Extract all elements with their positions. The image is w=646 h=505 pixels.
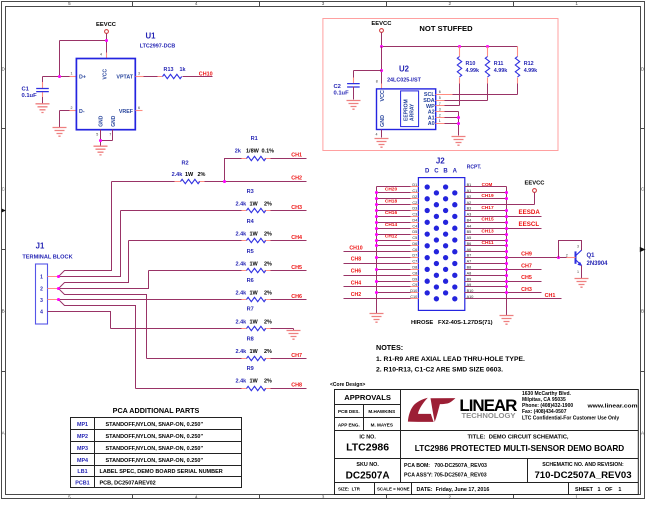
Q1 base pin stub [567, 257, 576, 259]
wire SDA to R11 [445, 100, 488, 102]
svg-text:SHEET 1 OF 1: SHEET 1 OF 1 [575, 487, 621, 493]
junction dots left bus [375, 191, 378, 294]
svg-text:R5: R5 [247, 249, 254, 255]
address block [522, 391, 638, 422]
U1 pin numbers [71, 53, 141, 137]
svg-text:A0: A0 [428, 121, 435, 127]
wires J2 left rows to bus [377, 193, 411, 293]
svg-text:CH7: CH7 [521, 263, 532, 269]
U2 VCC pin stub [381, 84, 383, 89]
svg-text:A8: A8 [467, 271, 472, 275]
U1 SECTION [22, 22, 213, 155]
resistor R11 [485, 47, 489, 101]
Linear Technology logo swoosh [408, 398, 456, 422]
ground at R7 [287, 331, 301, 340]
junction dots right bus [505, 191, 508, 294]
Q1 pin numbers [566, 245, 579, 275]
R2 labels [172, 161, 206, 178]
svg-text:STANDOFF,NYLON, SNAP-ON, 0.250: STANDOFF,NYLON, SNAP-ON, 0.250" [106, 422, 204, 428]
svg-text:2.4k: 2.4k [236, 349, 248, 355]
svg-text:4: 4 [195, 494, 198, 499]
resistor R3 [121, 208, 307, 212]
svg-text:ARRAY: ARRAY [410, 103, 416, 121]
svg-text:MP4: MP4 [77, 458, 88, 464]
svg-text:CH10: CH10 [349, 245, 362, 251]
svg-text:PCB1: PCB1 [75, 480, 89, 486]
junction J1 pin3 [57, 298, 60, 301]
svg-text:STANDOFF,NYLON, SNAP-ON, 0.250: STANDOFF,NYLON, SNAP-ON, 0.250" [106, 446, 204, 452]
right margin arrow marker [640, 248, 644, 252]
svg-text:0.1%: 0.1% [262, 149, 275, 155]
junction U1 gnd pins [99, 139, 102, 142]
wire R7 to ground [293, 329, 295, 331]
junction C2 branch [380, 69, 383, 72]
svg-text:EESCL: EESCL [519, 221, 540, 228]
svg-text:C4: C4 [412, 224, 417, 228]
svg-text:DATE: Friday, June 17, 2016: DATE: Friday, June 17, 2016 [417, 487, 490, 493]
svg-text:A4: A4 [467, 224, 472, 228]
ground below right bus [500, 316, 514, 325]
svg-text:CH5: CH5 [521, 275, 532, 281]
svg-text:2.4k: 2.4k [236, 262, 248, 268]
svg-text:MP1: MP1 [77, 422, 88, 428]
wire D1 row [377, 186, 411, 188]
svg-text:PCA ASS'Y: 705-DC2507A_REV03: PCA ASS'Y: 705-DC2507A_REV03 [404, 473, 487, 479]
svg-text:710-DC2507A_REV03: 710-DC2507A_REV03 [534, 470, 631, 481]
bottom zone numbers [68, 494, 578, 499]
svg-text:LABEL SPEC, DEMO BOARD SERIAL: LABEL SPEC, DEMO BOARD SERIAL NUMBER [100, 469, 223, 475]
svg-text:B: B [2, 309, 5, 314]
wire J1 pin3 to R6 [59, 299, 247, 301]
wire D+ row [43, 76, 77, 78]
svg-text:EEVCC: EEVCC [371, 21, 392, 27]
junction R1/R2 node [223, 180, 226, 183]
svg-text:R12: R12 [524, 61, 534, 67]
U2 right pin names [423, 92, 435, 127]
J2 column letters D C B A [425, 168, 458, 174]
svg-text:D3: D3 [412, 207, 417, 211]
svg-text:TITLE: DEMO CIRCUIT SCHEMATIC: TITLE: DEMO CIRCUIT SCHEMATIC, [468, 435, 569, 441]
R6 labels [236, 278, 273, 297]
svg-text:C3: C3 [412, 213, 417, 217]
svg-text:2: 2 [439, 113, 441, 117]
U1 VCC pin stub [106, 53, 108, 59]
svg-text:D7: D7 [412, 254, 417, 258]
wire down to U2 VCC [381, 47, 383, 89]
svg-text:D-: D- [79, 109, 85, 115]
net labels CH9 CH7 CH5 CH3 [521, 252, 532, 293]
junction CH9 at bus [505, 256, 508, 259]
resistor R13 [158, 74, 188, 78]
svg-text:A: A [453, 168, 458, 174]
svg-text:8: 8 [376, 80, 378, 84]
U2 GND pin stub [381, 130, 383, 138]
svg-text:Q1: Q1 [587, 253, 596, 259]
R11 labels [494, 61, 508, 74]
svg-text:2%: 2% [198, 172, 206, 178]
svg-text:CH8: CH8 [351, 257, 361, 263]
svg-text:C: C [434, 168, 439, 174]
ground below address pins [452, 137, 466, 146]
wire EEVCC to U1 VCC pin4 [106, 34, 108, 59]
svg-text:3: 3 [322, 1, 325, 6]
PCB DES. / M.HAWKINS row [338, 409, 395, 414]
svg-text:LTC Confidential-For Customer: LTC Confidential-For Customer Use Only [522, 416, 619, 422]
svg-text:VCC: VCC [103, 69, 109, 80]
svg-text:SCALE = NONE: SCALE = NONE [377, 487, 410, 492]
wire A2 row to EEVCC [465, 204, 535, 206]
svg-text:CH13: CH13 [481, 229, 494, 235]
svg-text:1: 1 [577, 270, 579, 274]
svg-text:CH4: CH4 [351, 281, 361, 287]
svg-text:1W: 1W [250, 262, 259, 268]
svg-text:EEVCC: EEVCC [96, 22, 117, 28]
svg-text:A3: A3 [467, 213, 472, 217]
svg-text:TECHNOLOGY: TECHNOLOGY [462, 413, 516, 420]
wires CH10 CH8 CH6 CH4 CH2 stubs [344, 252, 411, 299]
svg-text:2k: 2k [235, 149, 242, 155]
net labels CH19 CH17 CH15 CH13 CH11 [481, 193, 494, 246]
top zone numbers [68, 1, 578, 6]
resistor R4 [129, 238, 307, 242]
NOTES [376, 343, 525, 374]
svg-text:2: 2 [566, 253, 568, 257]
wire Q1 collector loop [559, 241, 582, 258]
U1 D- pin stub [70, 110, 77, 112]
svg-text:7: 7 [109, 133, 111, 137]
ground below D- [53, 128, 67, 137]
resistor R2 [112, 179, 307, 183]
svg-text:CH12: CH12 [385, 234, 398, 240]
U1 D+ pin stub [70, 76, 77, 78]
svg-text:EEVCC: EEVCC [525, 180, 546, 186]
svg-text:GND: GND [111, 115, 117, 127]
svg-text:3: 3 [138, 71, 140, 75]
svg-text:D8: D8 [412, 266, 417, 270]
R10 labels [466, 61, 480, 74]
svg-text:5: 5 [68, 1, 71, 6]
svg-text:EEPROM: EEPROM [403, 99, 409, 121]
svg-text:VREF: VREF [119, 109, 134, 115]
junction A0 [457, 122, 460, 125]
junction J1 pin1 [57, 275, 60, 278]
svg-text:C1: C1 [412, 189, 417, 193]
svg-text:CH5: CH5 [291, 265, 302, 271]
svg-text:R3: R3 [247, 189, 254, 195]
svg-text:5: 5 [68, 494, 71, 499]
svg-text:B: B [641, 309, 644, 314]
svg-text:R1: R1 [251, 136, 258, 142]
svg-text:D1: D1 [412, 183, 417, 187]
svg-text:5: 5 [439, 96, 441, 100]
svg-text:4: 4 [376, 132, 378, 136]
pin stub VPTAT [136, 76, 144, 78]
svg-text:2%: 2% [264, 349, 272, 355]
NOT STUFFED SECTION [323, 19, 558, 151]
svg-text:CH10: CH10 [199, 71, 213, 77]
svg-text:2%: 2% [264, 291, 272, 297]
R12 labels [524, 61, 538, 74]
svg-text:1W: 1W [250, 349, 259, 355]
svg-text:CH4: CH4 [291, 235, 302, 241]
svg-text:SKU NO.: SKU NO. [356, 462, 379, 468]
svg-text:CH6: CH6 [351, 268, 361, 274]
J2 right pin stubs [465, 187, 473, 299]
svg-text:D6: D6 [412, 242, 417, 246]
J1 pin numbers [40, 274, 43, 315]
EEPROM U2 body [377, 89, 436, 130]
wire J1 pin2 fan to R8 [59, 289, 147, 359]
svg-text:J1: J1 [36, 242, 45, 251]
J2 right pin names [467, 183, 474, 299]
svg-text:R9: R9 [247, 366, 254, 372]
ground below C1 [36, 104, 50, 113]
svg-text:6: 6 [138, 106, 140, 110]
svg-text:CH7: CH7 [291, 353, 302, 359]
svg-text:6: 6 [439, 90, 441, 94]
wire EEVCC branch to D+ node [60, 41, 107, 77]
svg-text:J2: J2 [436, 157, 445, 166]
resistor R12 [515, 47, 519, 95]
svg-text:1W: 1W [250, 202, 259, 208]
svg-text:D4: D4 [412, 218, 417, 222]
wire CH5 row [465, 281, 542, 283]
svg-text:2%: 2% [264, 319, 272, 325]
transistor Q1 2N3904 [576, 250, 582, 265]
svg-text:2.4k: 2.4k [236, 291, 248, 297]
svg-text:TERMINAL BLOCK: TERMINAL BLOCK [22, 255, 72, 261]
svg-text:MP3: MP3 [77, 446, 88, 452]
svg-text:R6: R6 [247, 278, 254, 284]
pca description column [100, 422, 223, 487]
resistor R1 [225, 156, 307, 181]
svg-text:1: 1 [71, 71, 73, 75]
svg-text:5: 5 [96, 133, 98, 137]
wire VPTAT to R13 [136, 76, 163, 78]
svg-text:C9: C9 [412, 283, 417, 287]
R10 R11 R12 lower pin stubs [460, 78, 518, 84]
R9 labels [236, 366, 273, 385]
ground below C2 [347, 101, 361, 110]
svg-text:C7: C7 [412, 260, 417, 264]
svg-text:4: 4 [100, 53, 102, 57]
svg-text:2.4k: 2.4k [236, 232, 248, 238]
wire CH9 row to Q1 [465, 257, 567, 259]
capacitor C2 [347, 78, 360, 100]
wire CH3 row [465, 292, 542, 294]
svg-text:D10: D10 [410, 289, 417, 293]
svg-text:LTC2986 PROTECTED MULTI-SENSOR: LTC2986 PROTECTED MULTI-SENSOR DEMO BOAR… [415, 444, 624, 453]
svg-text:VPTAT: VPTAT [116, 75, 133, 81]
svg-text:1/8W: 1/8W [246, 149, 260, 155]
svg-text:CH20: CH20 [385, 187, 398, 193]
svg-text:4.99k: 4.99k [494, 68, 508, 74]
svg-text:SIZE: LTR: SIZE: LTR [338, 487, 361, 492]
svg-text:3: 3 [40, 298, 43, 304]
svg-text:2. R10-R13, C1-C2 ARE SMD SIZE: 2. R10-R13, C1-C2 ARE SMD SIZE 0603. [376, 367, 503, 374]
svg-text:1W: 1W [250, 379, 259, 385]
junction R10 tap [458, 45, 461, 48]
svg-text:1k: 1k [180, 67, 186, 73]
svg-text:1: 1 [439, 119, 441, 123]
svg-text:PCA ADDITIONAL PARTS: PCA ADDITIONAL PARTS [113, 406, 200, 415]
U2 right pin stubs [436, 95, 453, 124]
C2 value labels [334, 84, 350, 97]
C1 value labels [22, 86, 38, 99]
svg-text:4: 4 [40, 310, 43, 316]
ground below U2 [375, 139, 389, 148]
svg-text:D5: D5 [412, 230, 417, 234]
svg-text:0.1uF: 0.1uF [334, 90, 350, 96]
svg-text:C6: C6 [412, 248, 417, 252]
svg-text:M. MAYES: M. MAYES [371, 422, 393, 427]
wire J1 pin2 fan to R4 [59, 241, 129, 289]
svg-text:M.HAWKINS: M.HAWKINS [368, 409, 395, 414]
svg-text:C8: C8 [412, 271, 417, 275]
svg-text:R8: R8 [247, 337, 254, 343]
svg-text:3: 3 [322, 494, 325, 499]
left zone letters [2, 67, 6, 436]
svg-text:CH6: CH6 [291, 294, 302, 300]
R13 value labels [164, 67, 186, 73]
right zone ticks [641, 129, 646, 372]
svg-text:1: 1 [575, 494, 578, 499]
svg-text:CH18: CH18 [385, 198, 398, 204]
J2 left pin stubs [411, 187, 419, 299]
wire right COM bus [506, 187, 508, 316]
wire EEVCC down to VCC bus [381, 33, 383, 47]
wire D- to ground [60, 111, 77, 128]
svg-text:C2: C2 [334, 84, 341, 90]
svg-text:CH2: CH2 [351, 292, 361, 298]
J2 left pin names [410, 183, 417, 299]
svg-text:STANDOFF,NYLON, SNAP-ON, 0.250: STANDOFF,NYLON, SNAP-ON, 0.250" [106, 458, 204, 464]
svg-text:CH3: CH3 [291, 205, 302, 211]
net labels CH10 CH8 CH6 CH4 CH2 [349, 245, 362, 297]
left margin arrow marker [2, 209, 6, 213]
U1 GND pin stubs [101, 130, 113, 147]
J2 SECTION [344, 157, 609, 327]
svg-text:C10: C10 [410, 295, 417, 299]
svg-text:2: 2 [449, 494, 452, 499]
APP ENG. / M. MAYES row [338, 422, 393, 427]
svg-text:3: 3 [577, 245, 579, 249]
svg-text:COM: COM [482, 182, 493, 187]
svg-text:4: 4 [195, 1, 198, 6]
capacitor C1 [36, 77, 49, 104]
svg-text:CH1: CH1 [545, 293, 556, 299]
EEPROM ARRAY inner box [401, 91, 419, 127]
svg-text:GND: GND [380, 115, 386, 127]
svg-text:APPROVALS: APPROVALS [344, 393, 391, 402]
svg-text:STANDOFF,NYLON, SNAP-ON, 0.250: STANDOFF,NYLON, SNAP-ON, 0.250" [106, 434, 204, 440]
svg-text:CH2: CH2 [291, 176, 302, 182]
svg-text:www.linear.com: www.linear.com [586, 404, 637, 410]
resistor R8 [147, 356, 307, 360]
svg-text:NOTES:: NOTES: [376, 343, 403, 352]
resistor R10 [457, 47, 461, 106]
svg-text:U2: U2 [399, 65, 410, 74]
svg-text:D: D [425, 168, 430, 174]
svg-text:MP2: MP2 [77, 434, 88, 440]
R7 labels [236, 307, 273, 326]
wire B1 COM row [465, 186, 507, 188]
PCA TABLE [71, 406, 242, 487]
svg-text:1: 1 [575, 1, 578, 6]
svg-text:SCHEMATIC NO. AND REVISION:: SCHEMATIC NO. AND REVISION: [542, 462, 624, 468]
wire J1 pin1 to R3 [59, 211, 121, 277]
svg-text:PCB DES.: PCB DES. [338, 409, 360, 414]
VREF pin6 stub [136, 110, 143, 112]
junction Q1 collector loop [557, 256, 560, 259]
svg-text:IC NO.: IC NO. [359, 434, 376, 440]
wire pullup bus [382, 46, 518, 48]
R1 labels [235, 136, 274, 155]
svg-text:R4: R4 [247, 219, 255, 225]
svg-text:D2: D2 [412, 195, 417, 199]
svg-text:CH17: CH17 [481, 205, 494, 211]
svg-text:C1: C1 [22, 86, 30, 92]
svg-text:1W: 1W [250, 291, 259, 297]
svg-text:2%: 2% [264, 262, 272, 268]
Q1 emitter wire [581, 266, 583, 279]
svg-text:0.1uF: 0.1uF [22, 93, 38, 99]
svg-text:U1: U1 [146, 32, 157, 41]
connector J2 body [418, 178, 464, 311]
top zone ticks [133, 2, 514, 7]
svg-text:D9: D9 [412, 277, 417, 281]
resistor R5 [149, 268, 307, 272]
wire J1 pin1 fan to R2 [59, 182, 112, 277]
resistor R9 [136, 386, 307, 390]
R4 labels [236, 219, 273, 238]
R3 labels [236, 189, 273, 208]
wire EESCL row [465, 228, 542, 230]
junction EEVCC branch [105, 39, 108, 42]
wire R13 to CH10 [183, 76, 213, 78]
left zone ticks [2, 129, 6, 372]
svg-text:2: 2 [40, 286, 43, 292]
svg-text:4.99k: 4.99k [524, 68, 538, 74]
R5 labels [236, 249, 273, 268]
R8 labels [236, 337, 273, 356]
wire CH1 row [465, 298, 562, 300]
svg-text:2: 2 [449, 1, 452, 6]
wire to C2 [354, 71, 382, 78]
svg-text:CH11: CH11 [482, 240, 494, 246]
svg-text:CH16: CH16 [385, 210, 398, 216]
svg-text:EESDA: EESDA [519, 209, 541, 216]
svg-text:2: 2 [71, 106, 73, 110]
wire left COM bus (D column) [376, 187, 378, 314]
svg-text:2%: 2% [264, 379, 272, 385]
svg-text:<Core Design>: <Core Design> [330, 382, 365, 388]
svg-text:NOT STUFFED: NOT STUFFED [419, 24, 473, 33]
svg-text:DC2507A: DC2507A [346, 471, 390, 482]
svg-text:HIROSE FX2-40S-1.27DS(71): HIROSE FX2-40S-1.27DS(71) [411, 320, 493, 326]
ground below left bus [370, 314, 384, 323]
svg-text:PCB, DC2507AREV02: PCB, DC2507AREV02 [100, 480, 156, 486]
wire J1 pin3 fan to R9 [59, 300, 136, 389]
svg-text:LTC2997-DCB: LTC2997-DCB [140, 43, 176, 49]
svg-text:R13: R13 [164, 67, 174, 73]
svg-text:R10: R10 [466, 61, 476, 67]
svg-text:VCC: VCC [380, 90, 386, 101]
svg-text:1: 1 [40, 274, 43, 280]
svg-text:2.4k: 2.4k [236, 319, 248, 325]
right zone letters [641, 67, 645, 436]
wires J2 right rows to bus [465, 193, 507, 287]
